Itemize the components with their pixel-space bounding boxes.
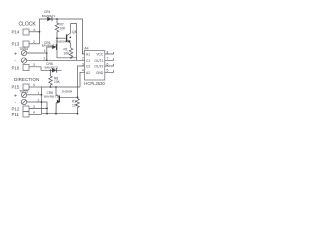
- wire P16 to diode wire: [29, 67, 62, 71]
- wire P15 to bus2: [29, 86, 42, 88]
- svg-text:DIRECTION: DIRECTION: [14, 77, 39, 82]
- svg-text:C2: C2: [86, 65, 90, 69]
- wire base Q5: [60, 96, 78, 98]
- diode CR4: [47, 17, 51, 22]
- svg-text:1: 1: [38, 91, 40, 95]
- svg-text:TB55: TB55: [19, 89, 28, 93]
- svg-text:BAV99LT1: BAV99LT1: [42, 14, 56, 18]
- junction dot: [46, 59, 48, 61]
- wire - to bus2: [27, 102, 47, 114]
- wire base of Q4: [57, 37, 67, 39]
- wire P12 to bus2: [29, 107, 47, 109]
- wire P13 to bus: [29, 43, 40, 45]
- pin stub 4 left: [80, 72, 85, 87]
- wire + terminal: [27, 53, 47, 60]
- svg-text:+: +: [14, 93, 17, 99]
- junction dot: [39, 31, 41, 33]
- transistor Q4: [66, 34, 68, 42]
- junction dot: [41, 101, 43, 103]
- pin stub VCC: [105, 52, 114, 54]
- svg-text:2: 2: [38, 98, 40, 102]
- svg-text:HCPL2530: HCPL2530: [84, 81, 105, 86]
- svg-text:10K: 10K: [72, 103, 79, 107]
- svg-text:+: +: [14, 51, 17, 57]
- svg-text:A1: A1: [86, 53, 90, 57]
- pin stub GND: [105, 70, 114, 72]
- diode CR5: [52, 45, 56, 49]
- resistor R7: [55, 19, 59, 38]
- svg-text:Q4: Q4: [72, 30, 77, 34]
- resistor R10: [76, 97, 80, 113]
- svg-text:4: 4: [33, 111, 35, 115]
- junction dot: [46, 108, 48, 110]
- svg-text:P13: P13: [12, 42, 20, 47]
- wire down to CR5: [56, 38, 58, 53]
- svg-text:2: 2: [82, 57, 84, 61]
- svg-text:OUT1: OUT1: [95, 59, 104, 63]
- svg-text:P12: P12: [12, 107, 20, 112]
- wire P14 to bus: [29, 31, 40, 33]
- svg-text:2: 2: [33, 40, 35, 44]
- junction node: [50, 69, 52, 71]
- resistor R1: [69, 48, 73, 58]
- wire bus channel1: [40, 19, 47, 44]
- pin stub 3 left: [78, 66, 85, 97]
- svg-text:10K: 10K: [54, 80, 61, 84]
- junction dot: [77, 113, 79, 115]
- wire + to bus2: [27, 94, 42, 96]
- pin stub OUT2: [105, 64, 114, 66]
- svg-text:4: 4: [33, 28, 35, 32]
- svg-text:P11: P11: [12, 112, 20, 117]
- wire top to U pin1: [47, 19, 85, 54]
- svg-text:10K: 10K: [60, 27, 67, 31]
- junction node: [56, 18, 58, 20]
- svg-text:2N3904: 2N3904: [62, 90, 73, 94]
- svg-text:1: 1: [82, 50, 84, 54]
- wire to jog: [57, 53, 71, 58]
- wire bus channel2: [41, 87, 43, 114]
- svg-text:A2: A2: [86, 71, 90, 75]
- svg-text:GND: GND: [96, 71, 104, 75]
- svg-text:VCC: VCC: [96, 53, 104, 57]
- channel2 top wire: [42, 86, 81, 88]
- svg-text:P14: P14: [12, 30, 20, 35]
- junction dot: [55, 86, 57, 88]
- svg-text:2N3904CT: 2N3904CT: [56, 39, 71, 43]
- svg-text:3: 3: [33, 105, 35, 109]
- junction dot: [41, 94, 43, 96]
- junction dot: [55, 113, 57, 115]
- pin stub OUT1: [105, 58, 114, 60]
- wire - terminal to pin2 of U: [27, 59, 85, 61]
- junction dot: [77, 96, 79, 98]
- resistor R8: [49, 70, 53, 87]
- wire CR5 anode: [47, 47, 52, 60]
- diode CR6: [52, 68, 56, 73]
- wire collector path: [71, 24, 77, 58]
- svg-text:4: 4: [33, 83, 35, 87]
- transistor Q5: [55, 87, 57, 95]
- svg-text:P16: P16: [12, 66, 20, 71]
- wire jog to pin2: [71, 58, 77, 61]
- svg-text:10K: 10K: [64, 52, 71, 56]
- svg-text:C1: C1: [86, 59, 90, 63]
- node base junction: [56, 37, 58, 39]
- svg-text:3: 3: [33, 63, 35, 67]
- junction dot: [46, 113, 48, 115]
- svg-text:A4: A4: [84, 46, 88, 50]
- svg-text:OUT2: OUT2: [95, 65, 104, 69]
- wire P11 bottom run: [29, 113, 42, 115]
- junction dot: [46, 52, 48, 54]
- svg-text:CLOCK: CLOCK: [19, 22, 37, 28]
- svg-text:1: 1: [44, 49, 46, 53]
- junction dot: [50, 86, 52, 88]
- svg-text:2: 2: [44, 56, 46, 60]
